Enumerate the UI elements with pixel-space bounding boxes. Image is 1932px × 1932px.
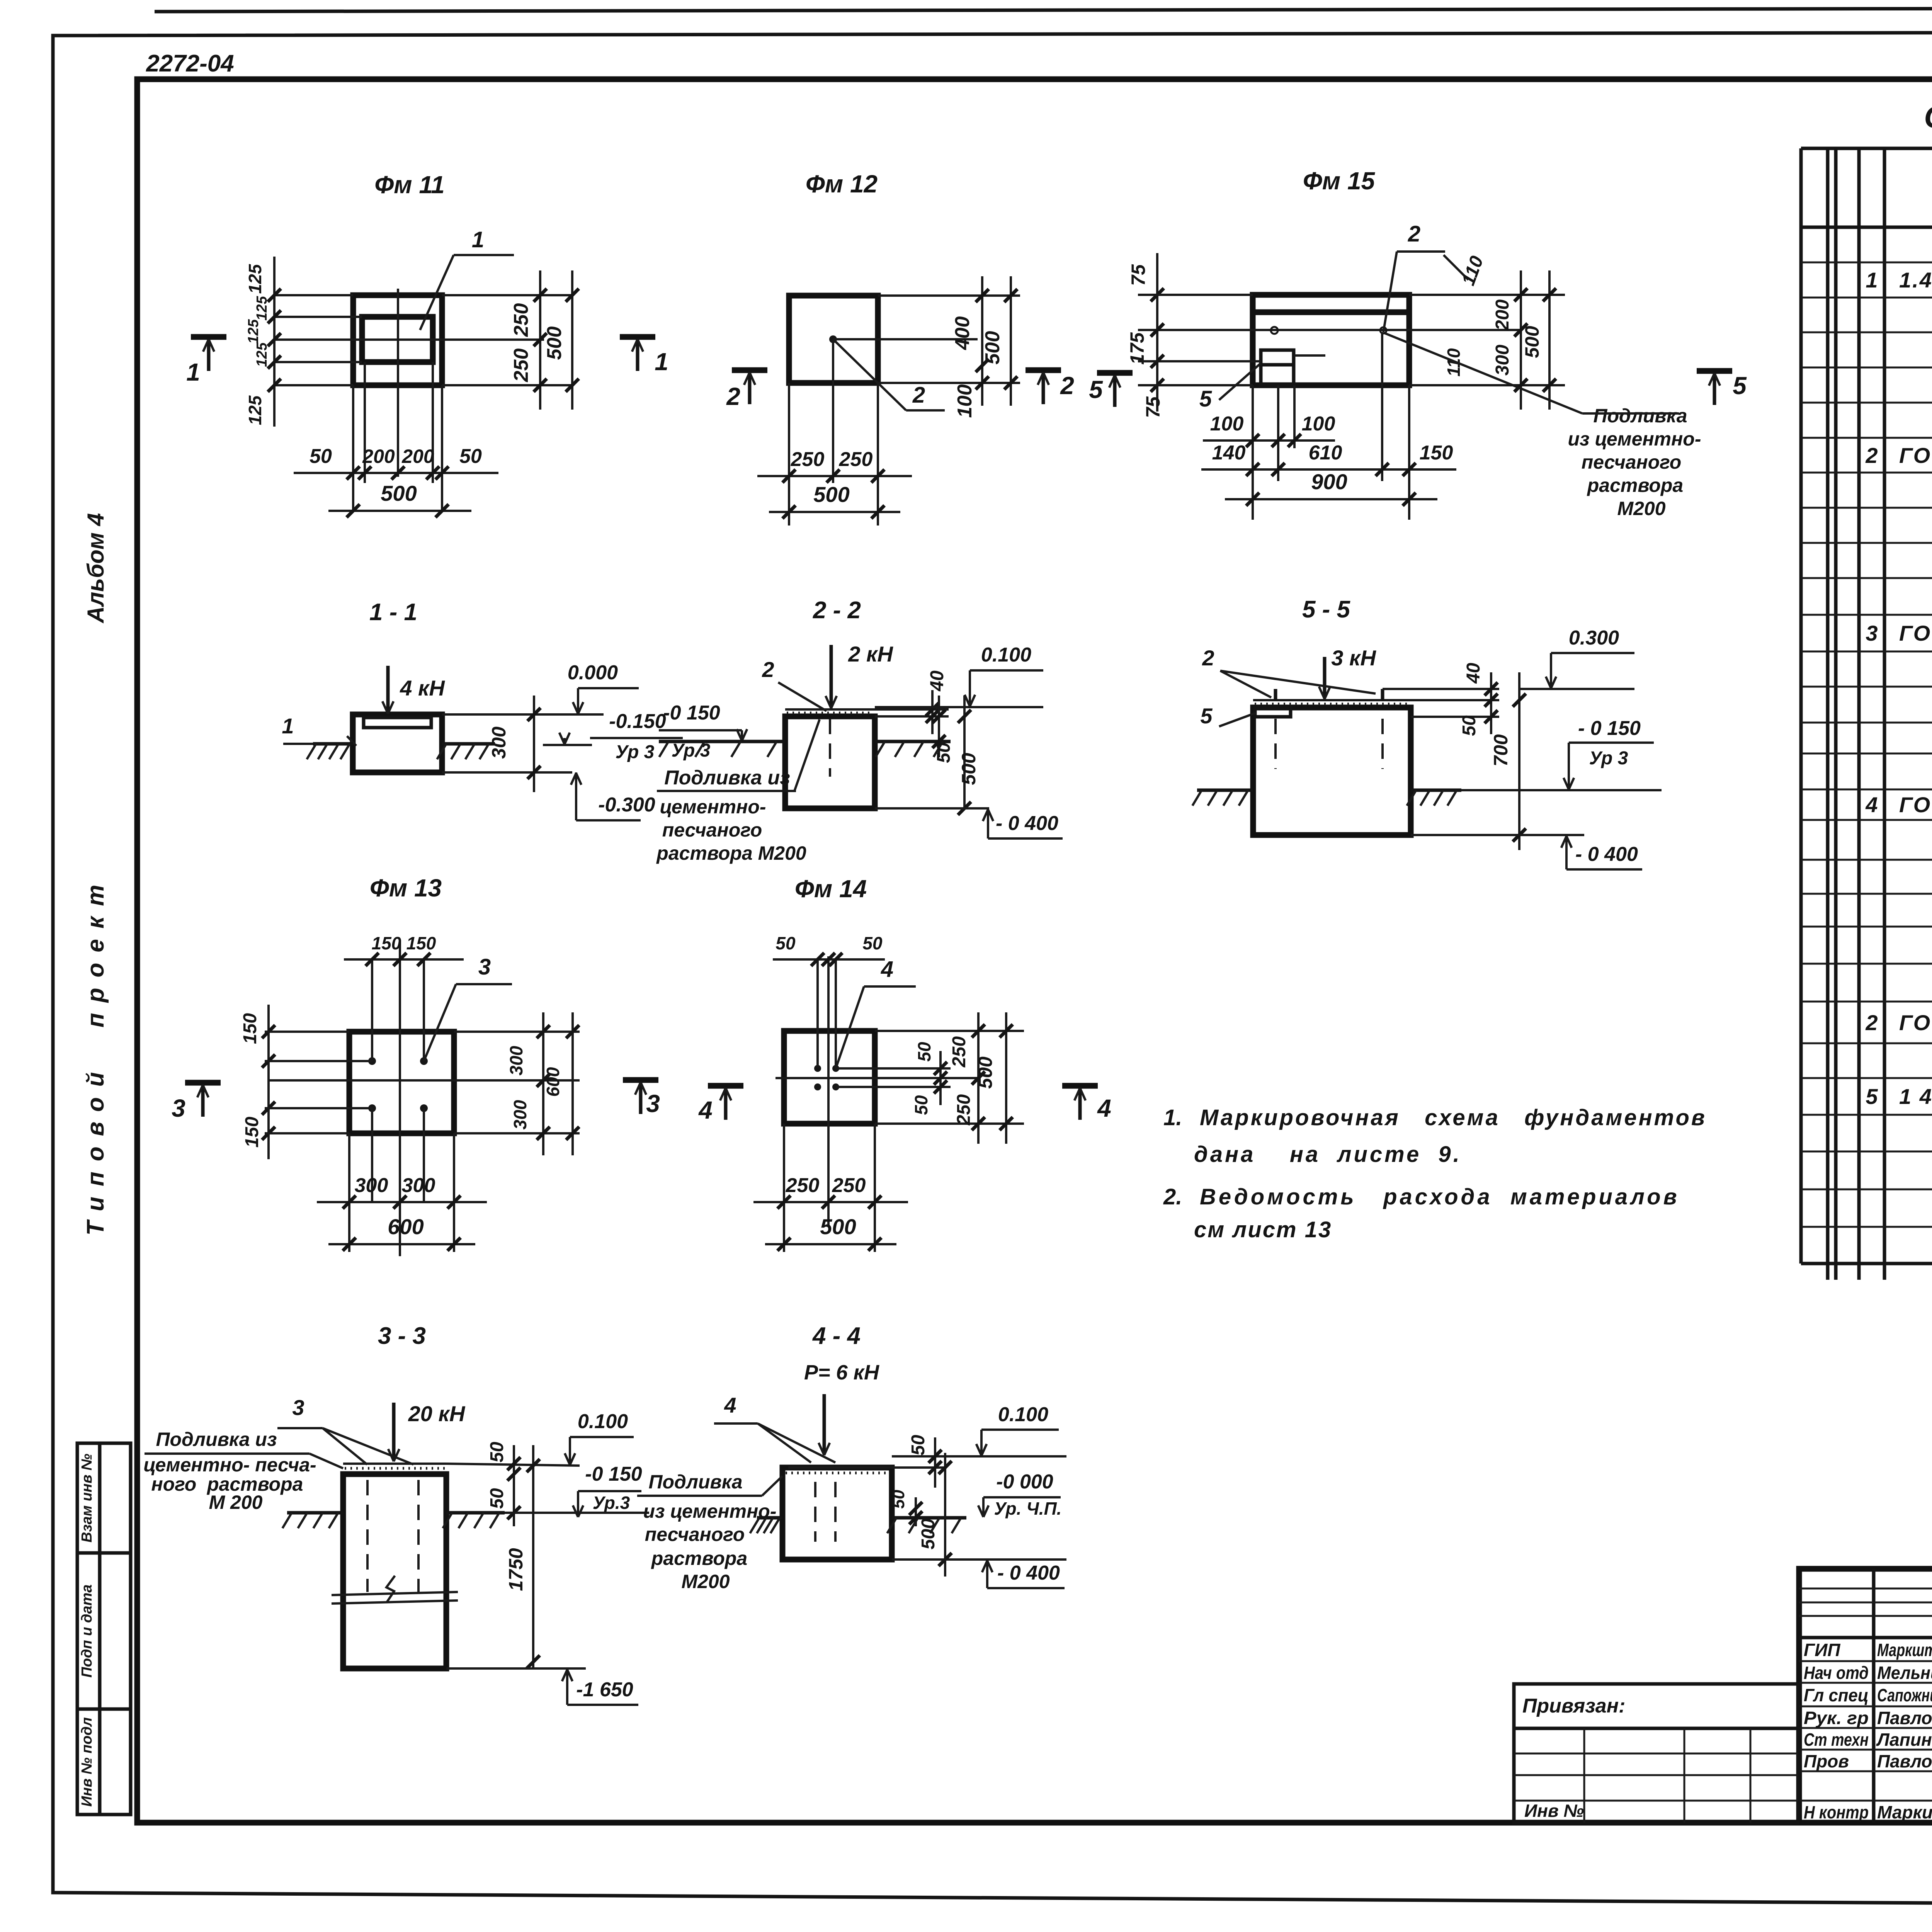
svg-text:песчаного: песчаного xyxy=(662,819,762,841)
svg-text:Ур.3: Ур.3 xyxy=(593,1493,630,1513)
svg-text:- 0 150: - 0 150 xyxy=(1578,717,1641,740)
svg-text:300: 300 xyxy=(1492,345,1513,376)
svg-text:200: 200 xyxy=(401,446,434,467)
svg-text:Фм 11: Фм 11 xyxy=(374,171,445,199)
svg-text:50: 50 xyxy=(934,742,954,763)
svg-text:Н контр: Н контр xyxy=(1804,1802,1869,1822)
svg-text:Ур 3: Ур 3 xyxy=(616,742,655,762)
svg-text:250: 250 xyxy=(949,1036,969,1068)
svg-text:2: 2 xyxy=(1408,221,1420,247)
svg-text:4: 4 xyxy=(698,1096,713,1124)
svg-text:40: 40 xyxy=(927,670,947,692)
svg-text:0.100: 0.100 xyxy=(981,644,1031,666)
svg-text:900: 900 xyxy=(1311,469,1347,494)
svg-text:5: 5 xyxy=(1089,376,1103,403)
svg-text:цементно-: цементно- xyxy=(660,796,766,818)
svg-text:-0 150: -0 150 xyxy=(663,702,720,724)
svg-text:100: 100 xyxy=(1302,413,1335,435)
svg-text:2: 2 xyxy=(762,657,774,682)
svg-text:Ст техн: Ст техн xyxy=(1804,1730,1869,1750)
svg-text:Лапина: Лапина xyxy=(1876,1730,1932,1750)
svg-text:1: 1 xyxy=(186,358,200,386)
svg-text:Р= 6 кН: Р= 6 кН xyxy=(804,1361,879,1384)
svg-text:3 - 3: 3 - 3 xyxy=(378,1323,426,1349)
svg-text:Фм 15: Фм 15 xyxy=(1303,167,1376,195)
svg-text:5: 5 xyxy=(1733,372,1747,400)
svg-text:3: 3 xyxy=(172,1094,185,1122)
svg-text:Ведомость расхода материало: Ведомость расхода материалов xyxy=(1200,1184,1680,1209)
svg-text:100: 100 xyxy=(954,384,976,418)
svg-text:50: 50 xyxy=(908,1435,929,1456)
svg-text:250: 250 xyxy=(839,448,873,471)
svg-text:300: 300 xyxy=(355,1174,388,1197)
svg-text:Подливка из: Подливка из xyxy=(156,1429,277,1450)
svg-text:Маркин: Маркин xyxy=(1877,1802,1932,1822)
svg-text:500: 500 xyxy=(381,481,417,505)
svg-text:раствора М200: раствора М200 xyxy=(656,842,806,864)
svg-text:500: 500 xyxy=(918,1519,939,1549)
svg-text:ГИП: ГИП xyxy=(1804,1640,1840,1660)
svg-text:-0.150: -0.150 xyxy=(609,710,666,733)
svg-text:4: 4 xyxy=(1865,793,1878,817)
svg-text:2: 2 xyxy=(1202,646,1214,670)
svg-text:2: 2 xyxy=(1060,372,1074,400)
svg-text:М 200: М 200 xyxy=(209,1492,263,1513)
svg-text:1: 1 xyxy=(282,714,294,738)
svg-text:500: 500 xyxy=(958,753,980,785)
svg-text:1750: 1750 xyxy=(505,1548,527,1591)
svg-text:- 0 400: - 0 400 xyxy=(996,812,1058,835)
svg-text:1.400- 15 В 1. 150- 54: 1.400- 15 В 1. 150- 54 xyxy=(1899,268,1932,292)
svg-text:500: 500 xyxy=(1521,326,1543,358)
svg-text:250: 250 xyxy=(954,1094,974,1126)
svg-text:4: 4 xyxy=(881,957,893,982)
svg-text:125: 125 xyxy=(245,264,265,294)
svg-text:Фм 12: Фм 12 xyxy=(806,170,878,198)
svg-text:Взам инв №: Взам инв № xyxy=(79,1454,95,1543)
svg-text:0.000: 0.000 xyxy=(568,662,618,684)
svg-text:Инв № подл: Инв № подл xyxy=(79,1717,95,1806)
svg-text:Маркировочная схема фундам: Маркировочная схема фундаментов xyxy=(1200,1105,1707,1130)
svg-text:50: 50 xyxy=(1459,715,1480,736)
svg-text:Инв №: Инв № xyxy=(1524,1801,1584,1821)
svg-text:600: 600 xyxy=(543,1067,563,1097)
svg-text:50: 50 xyxy=(914,1042,934,1062)
svg-text:3: 3 xyxy=(646,1090,660,1117)
svg-text:1: 1 xyxy=(472,227,484,252)
svg-text:250: 250 xyxy=(510,349,532,383)
svg-text:0.100: 0.100 xyxy=(578,1410,628,1433)
svg-text:150: 150 xyxy=(240,1013,260,1044)
svg-text:50: 50 xyxy=(862,933,883,953)
svg-text:50: 50 xyxy=(776,933,796,953)
svg-text:300: 300 xyxy=(488,726,510,759)
svg-text:0.300: 0.300 xyxy=(1569,627,1619,649)
svg-text:Мельников: Мельников xyxy=(1877,1663,1932,1683)
svg-text:- 0 400: - 0 400 xyxy=(1575,843,1638,866)
svg-text:Привязан:: Привязан: xyxy=(1522,1695,1625,1717)
svg-text:Нач отд: Нач отд xyxy=(1804,1663,1869,1683)
svg-text:300: 300 xyxy=(506,1046,526,1075)
svg-text:50: 50 xyxy=(459,445,482,468)
svg-text:Павлова: Павлова xyxy=(1877,1751,1932,1771)
svg-text:3 кН: 3 кН xyxy=(1331,646,1376,670)
svg-text:75: 75 xyxy=(1128,264,1149,286)
svg-text:из цементно-: из цементно- xyxy=(643,1500,777,1522)
svg-text:150: 150 xyxy=(1420,442,1453,464)
svg-text:4: 4 xyxy=(1097,1094,1111,1122)
svg-text:- 0 400: - 0 400 xyxy=(997,1562,1060,1584)
svg-text:2: 2 xyxy=(1865,1010,1878,1035)
svg-text:2272-04: 2272-04 xyxy=(146,50,234,77)
svg-text:0.100: 0.100 xyxy=(998,1403,1048,1426)
svg-text:Ур 3: Ур 3 xyxy=(1589,748,1628,769)
svg-text:250: 250 xyxy=(510,303,532,337)
svg-text:ГОСТ 24379 1- 80: ГОСТ 24379 1- 80 xyxy=(1899,793,1932,817)
svg-text:М200: М200 xyxy=(1617,498,1665,519)
svg-text:ГОСТ 24379.1 - 80: ГОСТ 24379.1 - 80 xyxy=(1899,621,1932,645)
svg-text:150: 150 xyxy=(372,933,401,953)
svg-text:4: 4 xyxy=(724,1393,736,1417)
svg-text:125: 125 xyxy=(245,395,265,425)
svg-text:4 - 4: 4 - 4 xyxy=(812,1323,861,1349)
svg-text:5: 5 xyxy=(1200,704,1213,728)
svg-text:610: 610 xyxy=(1309,442,1342,464)
svg-text:1 - 1: 1 - 1 xyxy=(369,599,417,626)
svg-text:300: 300 xyxy=(510,1100,530,1129)
svg-text:1: 1 xyxy=(655,348,668,376)
svg-text:20 кН: 20 кН xyxy=(408,1401,466,1426)
svg-text:250: 250 xyxy=(832,1174,866,1197)
svg-text:125: 125 xyxy=(245,319,262,344)
svg-text:500: 500 xyxy=(975,1056,996,1089)
svg-text:Ур. Ч.П.: Ур. Ч.П. xyxy=(994,1498,1062,1519)
svg-text:Типовой проект: Типовой проект xyxy=(82,874,109,1236)
svg-text:раствора: раствора xyxy=(651,1548,747,1569)
svg-text:2: 2 xyxy=(726,383,740,410)
svg-text:250: 250 xyxy=(791,448,825,471)
svg-text:Подливка: Подливка xyxy=(1593,405,1687,427)
svg-text:5: 5 xyxy=(1199,386,1212,412)
svg-text:3: 3 xyxy=(478,954,491,980)
svg-text:Подливка: Подливка xyxy=(648,1471,742,1493)
svg-text:из цементно-: из цементно- xyxy=(1568,428,1701,450)
svg-text:140: 140 xyxy=(1212,442,1246,464)
svg-text:50: 50 xyxy=(310,445,332,468)
svg-text:Фм 13: Фм 13 xyxy=(370,874,442,902)
svg-text:Гл спец: Гл спец xyxy=(1804,1685,1869,1705)
svg-text:125: 125 xyxy=(254,342,270,367)
svg-text:500: 500 xyxy=(543,327,566,360)
svg-text:4 кН: 4 кН xyxy=(400,676,445,700)
svg-text:Павлова: Павлова xyxy=(1877,1708,1932,1728)
svg-text:200: 200 xyxy=(362,446,395,467)
svg-text:1 400- 158 1 120-54: 1 400- 158 1 120-54 xyxy=(1899,1084,1932,1109)
svg-text:3: 3 xyxy=(292,1395,304,1420)
svg-text:2.: 2. xyxy=(1163,1184,1182,1209)
svg-text:150: 150 xyxy=(406,933,436,953)
svg-text:Фм 14: Фм 14 xyxy=(795,875,867,903)
svg-text:75: 75 xyxy=(1142,396,1164,418)
svg-text:50: 50 xyxy=(889,1490,908,1509)
svg-text:Подливка из: Подливка из xyxy=(664,767,790,789)
svg-text:40: 40 xyxy=(1463,663,1484,684)
svg-text:1: 1 xyxy=(1866,268,1878,292)
svg-text:175: 175 xyxy=(1126,332,1148,365)
svg-text:-0.300: -0.300 xyxy=(598,794,655,816)
svg-text:500: 500 xyxy=(981,331,1004,365)
svg-text:-1 650: -1 650 xyxy=(576,1679,633,1701)
svg-text:200: 200 xyxy=(1492,299,1513,331)
svg-text:раствора: раствора xyxy=(1587,474,1683,496)
svg-text:5 - 5: 5 - 5 xyxy=(1302,596,1351,623)
svg-text:700: 700 xyxy=(1490,734,1512,767)
svg-text:2 кН: 2 кН xyxy=(848,642,893,666)
svg-text:Пров: Пров xyxy=(1804,1751,1849,1771)
svg-text:1.: 1. xyxy=(1163,1105,1182,1130)
svg-text:ГОСТ 24379.1- 80: ГОСТ 24379.1- 80 xyxy=(1899,443,1932,468)
svg-text:Альбом 4: Альбом 4 xyxy=(83,513,109,624)
svg-text:песчаного: песчаного xyxy=(645,1524,745,1545)
svg-text:Подп и дата: Подп и дата xyxy=(79,1584,95,1677)
svg-text:ГОСТ 24379.1 - 80: ГОСТ 24379.1 - 80 xyxy=(1899,1010,1932,1035)
svg-text:50: 50 xyxy=(911,1095,931,1115)
svg-text:100: 100 xyxy=(1210,413,1244,435)
svg-text:песчаного: песчаного xyxy=(1582,451,1682,473)
svg-text:дана на листе 9.: дана на листе 9. xyxy=(1194,1142,1462,1167)
svg-text:5: 5 xyxy=(1866,1084,1878,1109)
svg-text:Спецификация к фундаментам: Спецификация к фундаментам xyxy=(1924,100,1932,134)
svg-text:см лист 13: см лист 13 xyxy=(1194,1217,1332,1242)
svg-text:М200: М200 xyxy=(681,1571,730,1592)
svg-text:50: 50 xyxy=(487,1488,507,1509)
svg-text:2: 2 xyxy=(1865,443,1878,468)
svg-text:500: 500 xyxy=(820,1214,856,1239)
svg-text:-0 150: -0 150 xyxy=(585,1463,642,1485)
svg-text:2 - 2: 2 - 2 xyxy=(813,597,861,624)
svg-text:Маркштедер: Маркштедер xyxy=(1877,1640,1932,1660)
svg-text:400: 400 xyxy=(951,316,974,350)
svg-text:-0 000: -0 000 xyxy=(996,1471,1053,1493)
svg-text:цементно- песча-: цементно- песча- xyxy=(143,1454,316,1476)
svg-text:Сапожникова: Сапожникова xyxy=(1877,1685,1932,1705)
svg-text:Рук. гр: Рук. гр xyxy=(1804,1708,1869,1728)
svg-text:3: 3 xyxy=(1866,621,1878,645)
svg-text:2: 2 xyxy=(912,383,925,408)
svg-text:250: 250 xyxy=(786,1174,820,1197)
svg-text:50: 50 xyxy=(487,1442,507,1463)
svg-text:300: 300 xyxy=(402,1174,435,1197)
svg-text:150: 150 xyxy=(242,1117,262,1148)
svg-text:500: 500 xyxy=(813,482,849,507)
svg-text:125: 125 xyxy=(254,296,270,320)
svg-text:600: 600 xyxy=(388,1214,423,1239)
